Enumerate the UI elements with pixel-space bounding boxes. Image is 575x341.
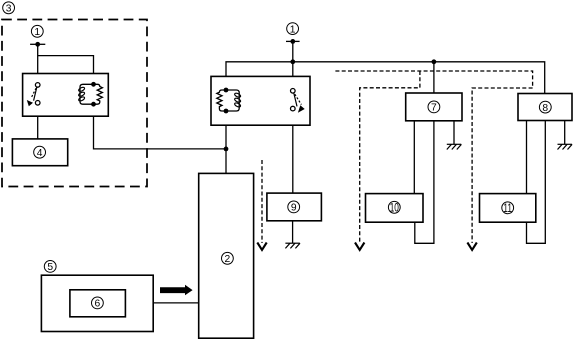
- svg-text:10: 10: [390, 202, 400, 215]
- svg-text:7: 7: [431, 103, 437, 114]
- svg-text:6: 6: [95, 299, 101, 310]
- svg-text:8: 8: [542, 103, 548, 114]
- svg-text:2: 2: [225, 254, 231, 265]
- svg-text:1: 1: [290, 24, 296, 35]
- svg-text:3: 3: [6, 4, 12, 15]
- svg-text:11: 11: [503, 203, 512, 216]
- svg-text:9: 9: [291, 203, 297, 214]
- svg-text:4: 4: [37, 148, 43, 159]
- svg-text:5: 5: [47, 262, 53, 273]
- svg-text:1: 1: [34, 27, 40, 38]
